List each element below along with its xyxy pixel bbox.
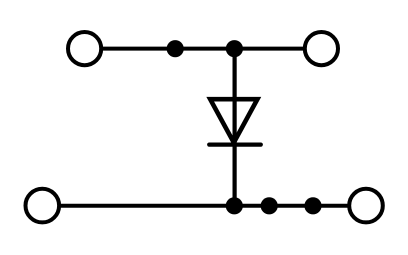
wire bottom horizontal [59, 204, 349, 208]
junction dot bottom tee [226, 197, 243, 214]
junction dot bottom B [261, 197, 278, 214]
junction dot bottom C [304, 197, 321, 214]
wire vertical (diode branch) [233, 49, 237, 206]
terminal circle bottom-left [26, 189, 60, 223]
terminal circle top-left [68, 32, 101, 65]
terminal circle top-right [305, 32, 338, 65]
diode D1 cathode bar [209, 143, 261, 147]
junction dot top B (tee to diode) [226, 40, 243, 57]
diode D1 triangle (anode) [210, 99, 257, 142]
terminal circle bottom-right [349, 189, 383, 223]
wire top horizontal [101, 47, 305, 51]
junction dot top A [167, 40, 184, 57]
